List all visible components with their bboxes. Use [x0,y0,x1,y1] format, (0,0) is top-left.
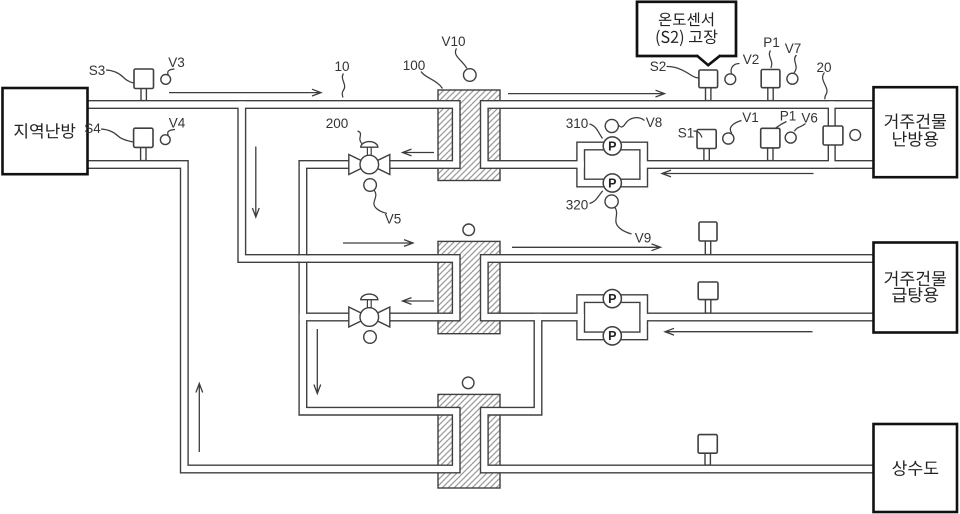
svg-text:V2: V2 [743,52,760,67]
svg-text:V4: V4 [169,115,186,130]
svg-text:320: 320 [566,197,589,212]
svg-text:10: 10 [334,59,349,74]
svg-text:P1: P1 [780,108,797,123]
svg-text:V8: V8 [646,115,663,130]
svg-text:P: P [608,329,616,343]
svg-text:P: P [608,139,616,153]
svg-text:S3: S3 [89,63,106,78]
svg-text:V6: V6 [801,110,818,125]
svg-text:P1: P1 [763,35,780,50]
svg-text:V5: V5 [385,212,402,227]
svg-text:310: 310 [566,116,589,131]
svg-text:S4: S4 [84,121,101,136]
svg-text:V10: V10 [441,34,465,49]
svg-text:100: 100 [403,58,426,73]
svg-text:200: 200 [326,116,349,131]
svg-text:V9: V9 [635,231,652,246]
svg-text:P: P [608,176,616,190]
svg-text:20: 20 [816,60,831,75]
svg-text:S2: S2 [650,59,667,74]
svg-text:P: P [608,292,616,306]
svg-text:V1: V1 [742,110,759,125]
svg-text:V7: V7 [785,41,802,56]
svg-text:V3: V3 [168,55,185,70]
svg-text:S1: S1 [678,125,695,140]
